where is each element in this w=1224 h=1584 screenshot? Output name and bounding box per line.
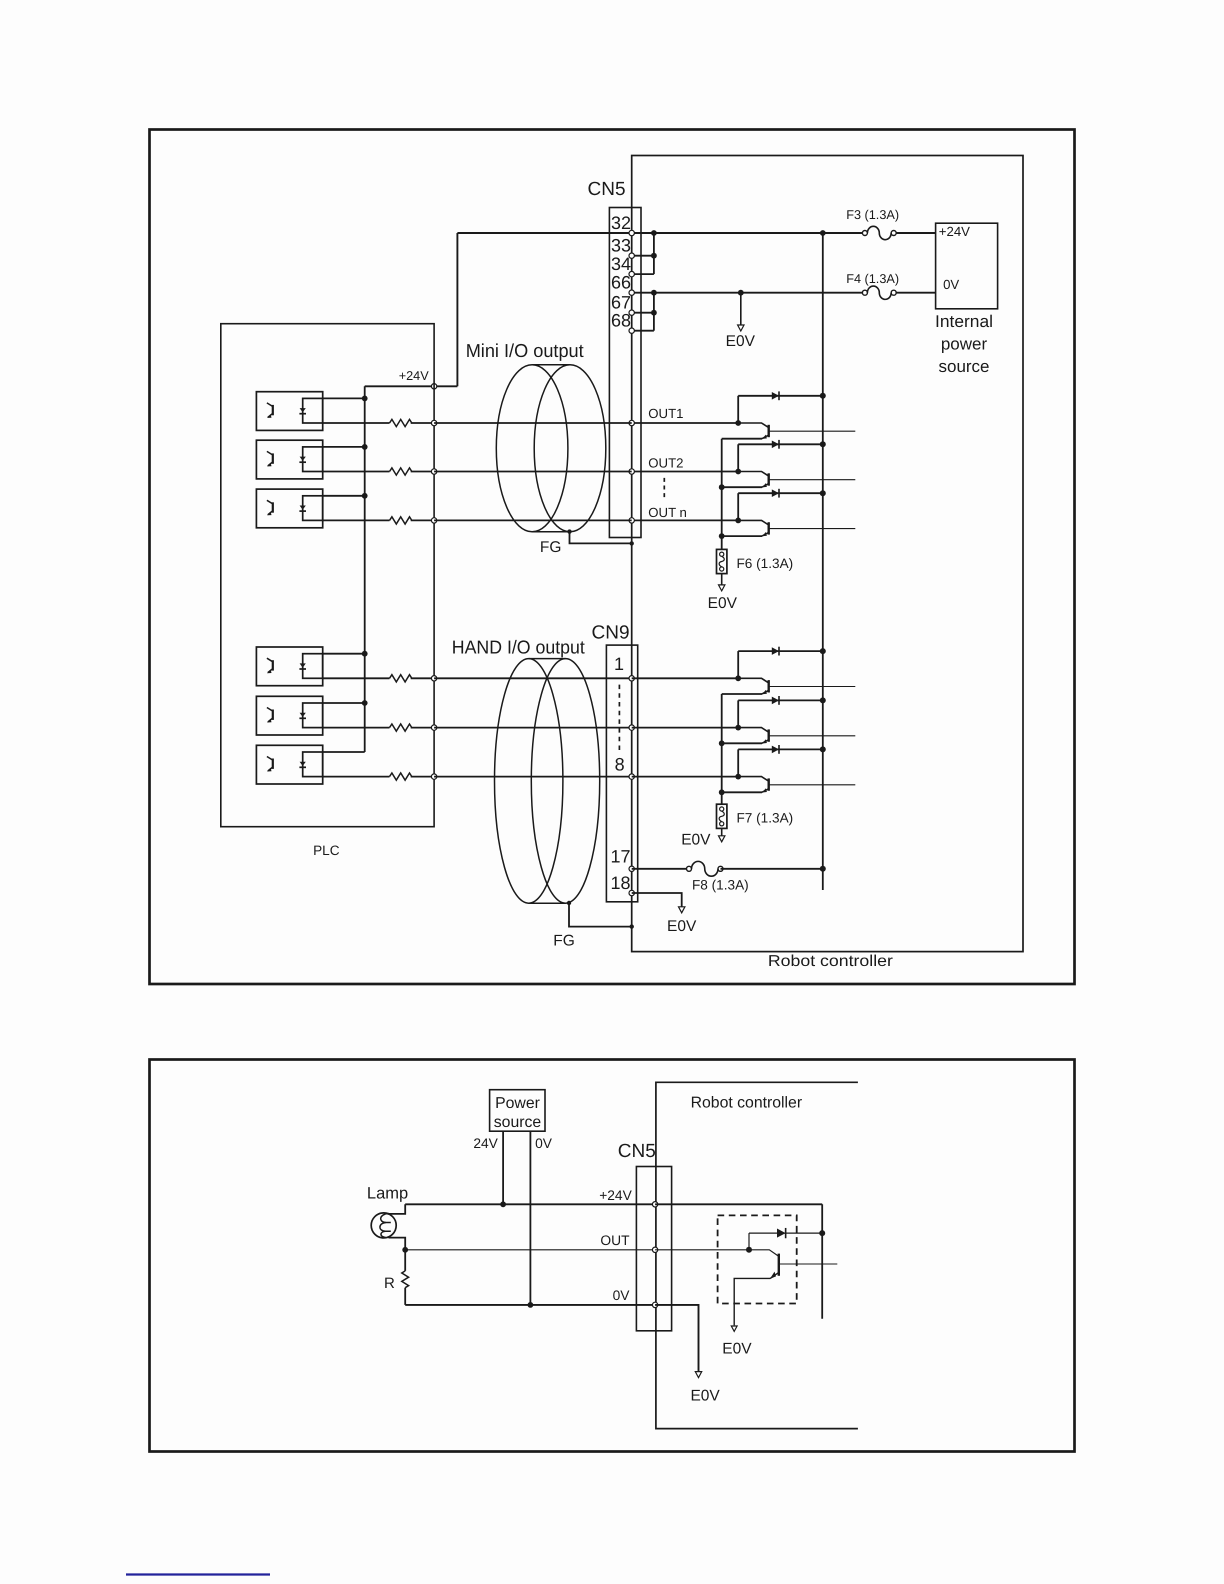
anode wire group1 #3 — [323, 495, 365, 497]
wire fuse F3 to power source — [894, 232, 936, 234]
wire to connector (group1 #2) — [434, 471, 632, 473]
wire +24V: PLC to pin32 to fuse F3 — [457, 232, 865, 234]
resistor R (group2 #3) — [323, 776, 390, 778]
svg-text:E0V: E0V — [681, 832, 711, 849]
wire link pins 66-67-68 — [653, 293, 655, 331]
node pin68 — [629, 328, 634, 333]
wire link pins 32-33-34 — [653, 233, 655, 274]
anode wire group1 #2 — [323, 446, 365, 448]
fuse F6 (1.3A) — [717, 549, 727, 573]
svg-text:E0V: E0V — [726, 333, 756, 350]
+24V collector rail — [822, 233, 824, 890]
node PLC boundary (group2 #3) — [431, 774, 436, 779]
svg-text:68: 68 — [611, 311, 631, 331]
svg-text:FG: FG — [553, 932, 575, 949]
svg-text:HAND I/O output: HAND I/O output — [452, 637, 586, 658]
svg-text:0V: 0V — [613, 1288, 631, 1303]
optocoupler group1 #3 — [256, 489, 322, 528]
node PLC boundary (group1 #2) — [431, 469, 436, 474]
wire to connector (group2 #2) — [434, 727, 632, 729]
anode wire group2 #1 — [323, 653, 365, 655]
wire lamp bottom to OUT node — [389, 1238, 406, 1250]
svg-text:F4 (1.3A): F4 (1.3A) — [846, 272, 899, 286]
connector CN5 box (bottom) — [636, 1167, 671, 1331]
flyback diode D1 — [749, 1232, 822, 1234]
outer frame (bottom diagram) — [150, 1060, 1075, 1452]
node PLC boundary (group2 #2) — [431, 725, 436, 730]
optocoupler group2 #2 — [256, 696, 322, 735]
optocoupler group1 #1 — [256, 392, 322, 431]
svg-text:34: 34 — [611, 254, 631, 274]
emitter bus to F7 — [721, 694, 723, 804]
anode wire group1 #1 — [323, 397, 365, 399]
svg-text:Lamp: Lamp — [367, 1185, 408, 1203]
optocoupler group1 #2 — [256, 440, 322, 479]
svg-text:+24V: +24V — [599, 1188, 632, 1203]
svg-text:67: 67 — [611, 293, 631, 313]
node pin34 — [629, 271, 634, 276]
dashed continuation marks — [663, 478, 665, 500]
lamp — [371, 1213, 396, 1238]
wire to connector (group2 #3) — [434, 776, 632, 778]
svg-text:Mini I/O output: Mini I/O output — [466, 340, 585, 361]
transistor Q6 (hand I/O 8) with flyback diode — [632, 776, 739, 778]
wire +24V row — [405, 1203, 655, 1205]
fuse F3 (1.3A) — [862, 231, 867, 236]
node PLC boundary (group1 #1) — [431, 420, 436, 425]
svg-text:18: 18 — [611, 873, 631, 893]
svg-text:F8 (1.3A): F8 (1.3A) — [692, 877, 749, 892]
resistor R (group2 #1) — [323, 677, 390, 679]
svg-text:E0V: E0V — [690, 1388, 720, 1405]
svg-text:power: power — [941, 334, 988, 353]
svg-text:Robot controller: Robot controller — [768, 953, 893, 970]
resistor R (group1 #1) — [323, 422, 390, 424]
wire fuse F4 to power source — [894, 292, 936, 294]
svg-text:33: 33 — [611, 236, 631, 256]
resistor R (group1 #3) — [323, 519, 390, 521]
node pin67 — [629, 310, 634, 315]
anode wire group2 #3 — [323, 751, 365, 753]
svg-text:source: source — [494, 1114, 542, 1131]
transistor Q3 (mini I/O out n) with flyback diode — [735, 518, 741, 524]
wire OUT n — [632, 519, 739, 521]
pin18 E0V drop — [629, 890, 634, 895]
shield cable (mini I/O) — [496, 365, 568, 532]
svg-text:OUT: OUT — [600, 1233, 630, 1248]
wire OUT row — [405, 1249, 655, 1251]
dashed pins 2..7 — [618, 685, 620, 753]
wire +24V into controller + rail — [655, 1203, 822, 1205]
svg-text:E0V: E0V — [667, 918, 697, 935]
wire to connector (group2 #1) — [434, 677, 632, 679]
svg-text:24V: 24V — [473, 1136, 498, 1151]
svg-text:F3 (1.3A): F3 (1.3A) — [846, 208, 899, 222]
svg-text:OUT2: OUT2 — [648, 456, 683, 471]
svg-text:E0V: E0V — [722, 1340, 752, 1357]
resistor R (group1 #2) — [323, 471, 390, 473]
svg-text:Internal: Internal — [935, 312, 993, 331]
+24V feed to PLC — [456, 233, 458, 386]
shield cable (hand I/O) — [495, 659, 563, 904]
svg-text:CN5: CN5 — [618, 1141, 656, 1162]
0V to E0V — [655, 1305, 698, 1372]
wire OUT1 — [632, 422, 739, 424]
node +24V junction (33/34 link) — [651, 230, 657, 236]
node CN9 pin8 — [629, 774, 634, 779]
wire OUT2 — [632, 471, 739, 473]
outer frame (top diagram) — [150, 130, 1075, 985]
wire 0V from power source — [529, 1131, 531, 1305]
wire 0V row — [405, 1304, 655, 1306]
internal power source box — [936, 223, 998, 309]
transistor Q (output driver) — [749, 1250, 779, 1257]
transistor Q1 (mini I/O out1) with flyback diode — [735, 420, 741, 426]
svg-text:FG: FG — [540, 539, 562, 556]
E0V drop from 0V wire — [738, 290, 744, 296]
fuse F4 (1.3A) — [862, 290, 867, 295]
wire OUT into driver — [655, 1249, 749, 1251]
robot controller box — [632, 156, 1023, 952]
svg-text:Power: Power — [495, 1095, 540, 1112]
svg-text:+24V: +24V — [939, 224, 970, 239]
node +24V PLC boundary — [431, 384, 436, 389]
FG wire (mini I/O) — [567, 529, 571, 533]
svg-text:CN5: CN5 — [588, 179, 626, 200]
svg-text:1: 1 — [614, 654, 624, 674]
svg-text:R: R — [384, 1275, 395, 1292]
page footer rule — [126, 1573, 270, 1575]
svg-text:0V: 0V — [943, 277, 959, 292]
emitter to E0V — [734, 1278, 770, 1325]
connector CN5 box — [609, 208, 641, 538]
wire to connector (group1 #1) — [434, 422, 632, 424]
connector CN9 box — [606, 645, 637, 902]
node pin33 — [629, 253, 634, 258]
+24V distribution wire — [364, 386, 366, 752]
wire 24V from power source — [502, 1131, 504, 1204]
transistor Q2 (mini I/O out2) with flyback diode — [735, 469, 741, 475]
svg-text:PLC: PLC — [313, 843, 340, 858]
svg-text:17: 17 — [611, 847, 631, 867]
wire 0V: pin66 to fuse F4 — [632, 292, 865, 294]
dashed driver block — [718, 1215, 797, 1303]
wire to connector (group1 #3) — [434, 519, 632, 521]
node lamp/R/OUT junction — [402, 1247, 408, 1253]
robot controller partial box — [656, 1082, 858, 1428]
svg-text:F6 (1.3A): F6 (1.3A) — [737, 556, 794, 571]
node PLC boundary (group2 #1) — [431, 676, 436, 681]
wire lamp top to +24V — [388, 1204, 406, 1214]
transistor Q5 (hand I/O mid) with flyback diode — [632, 727, 739, 729]
resistor R — [404, 1250, 406, 1271]
svg-text:OUT1: OUT1 — [648, 406, 683, 421]
fuse F7 (1.3A) — [717, 804, 727, 828]
PLC box — [221, 324, 434, 827]
node CN9 pin mid — [629, 725, 634, 730]
svg-text:32: 32 — [611, 213, 631, 233]
svg-text:source: source — [938, 357, 989, 376]
svg-text:0V: 0V — [535, 1136, 553, 1151]
svg-text:66: 66 — [611, 273, 631, 293]
svg-text:CN9: CN9 — [592, 623, 630, 644]
optocoupler group2 #1 — [256, 647, 322, 686]
emitter bus to F6 — [721, 439, 723, 550]
svg-text:8: 8 — [615, 755, 625, 775]
wire pin17 to fuse F8 — [629, 866, 634, 871]
svg-text:E0V: E0V — [708, 595, 738, 612]
node CN9 pin1 — [629, 676, 634, 681]
fuse F8 (1.3A) — [687, 866, 692, 871]
svg-text:Robot controller: Robot controller — [691, 1094, 803, 1111]
FG wire (hand I/O) — [567, 901, 571, 905]
optocoupler group2 #3 — [256, 745, 322, 784]
node pin32 — [629, 230, 634, 235]
resistor R (group2 #2) — [323, 727, 390, 729]
svg-text:OUT n: OUT n — [648, 505, 687, 520]
node PLC boundary (group1 #3) — [431, 518, 436, 523]
svg-text:+24V: +24V — [399, 369, 430, 383]
node pin66 — [629, 290, 634, 295]
anode wire group2 #2 — [323, 702, 365, 704]
svg-text:F7 (1.3A): F7 (1.3A) — [737, 811, 794, 826]
transistor Q4 (hand I/O 1) with flyback diode — [632, 677, 739, 679]
power source box — [490, 1090, 545, 1132]
